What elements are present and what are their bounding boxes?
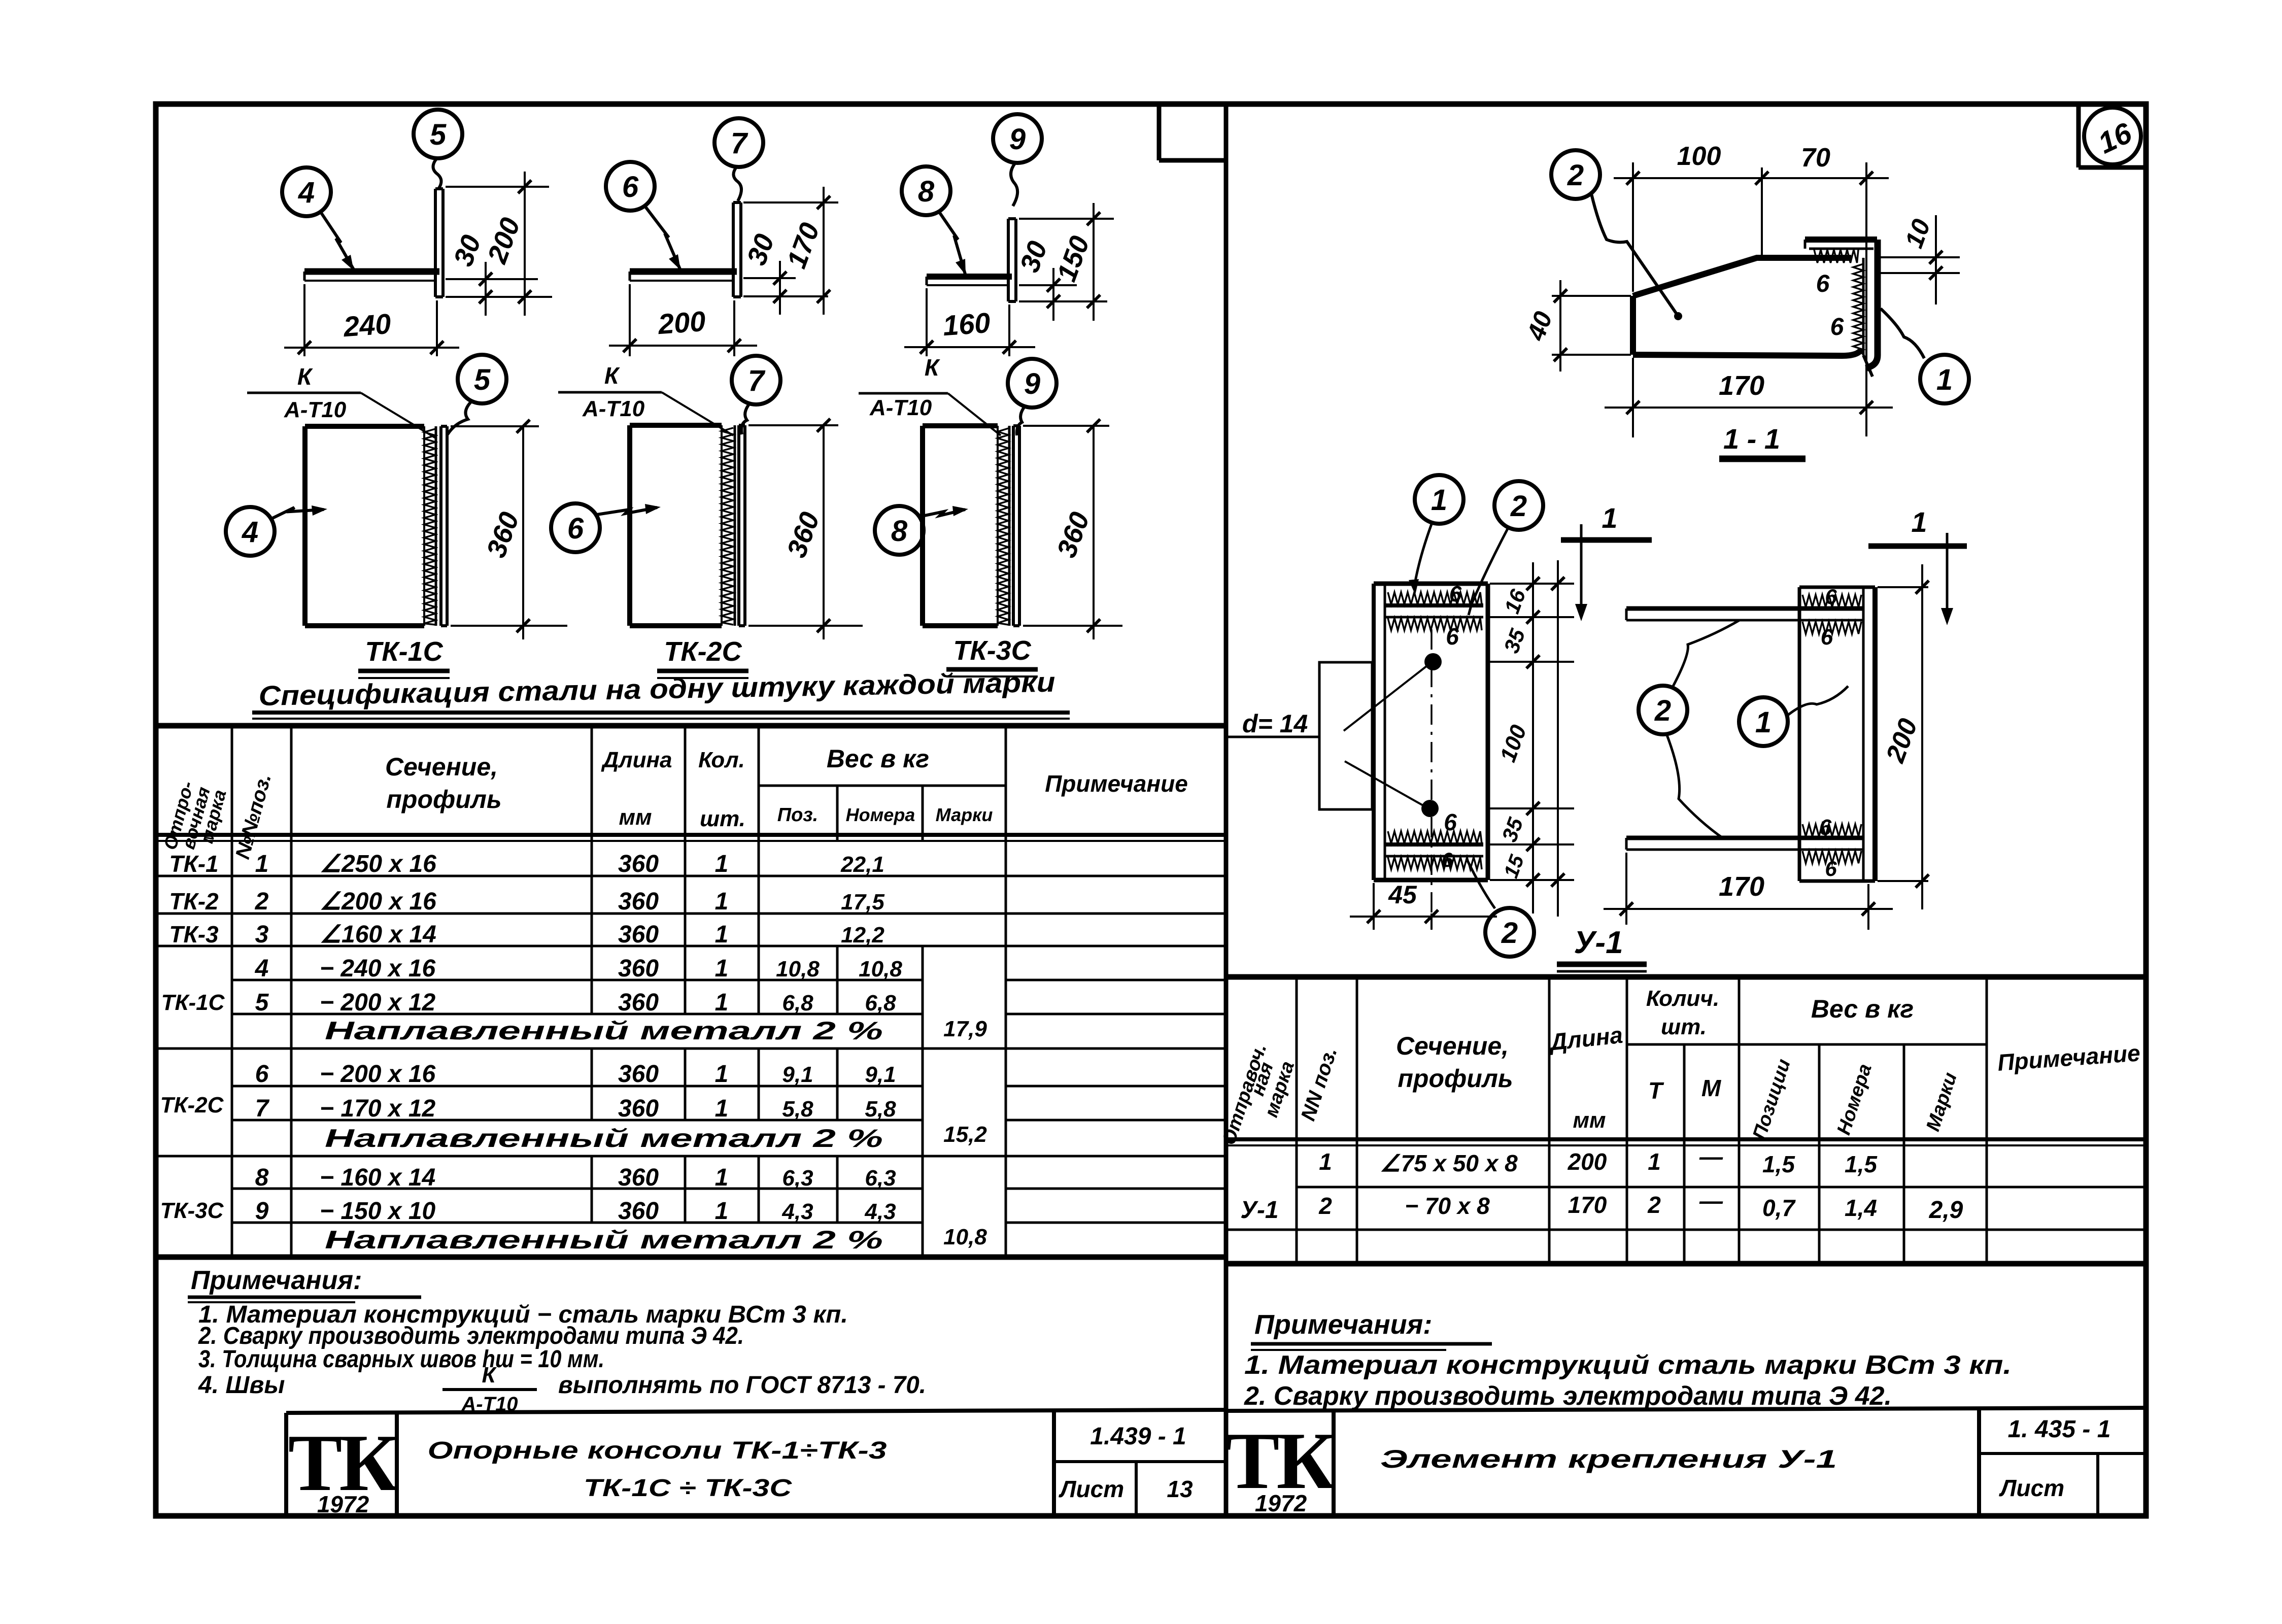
angle pos1 in section: vertical leg	[1863, 240, 1878, 377]
right table header texts	[1218, 986, 2141, 1147]
svg-text:d= 14: d= 14	[1242, 709, 1308, 738]
right table frame	[1226, 977, 2146, 1264]
leader to lower balloon	[1467, 859, 1495, 908]
svg-text:35: 35	[1497, 814, 1527, 845]
left notes heading	[188, 1266, 421, 1302]
svg-text:1: 1	[1319, 1148, 1332, 1175]
wavy leader balloon 7 side view	[741, 403, 750, 434]
label TK-1C	[358, 636, 450, 678]
dimension 150 right of TK-3C top view	[1019, 203, 1114, 321]
leader balloon 1 right view	[1787, 686, 1848, 716]
svg-text:Вес в кг: Вес в кг	[827, 745, 929, 773]
svg-text:40: 40	[1521, 308, 1558, 345]
dimension 170 (section 1-1 bottom)	[1605, 358, 1893, 437]
svg-text:2: 2	[1654, 694, 1671, 727]
svg-text:6: 6	[1449, 582, 1462, 606]
right table vertical grid	[1297, 977, 1987, 1264]
svg-text:1: 1	[715, 989, 729, 1016]
svg-text:К: К	[297, 363, 313, 390]
balloon 8 (side view)	[875, 506, 924, 555]
svg-text:4: 4	[298, 176, 315, 209]
dimension 240 under TK-1C top view	[284, 284, 459, 356]
svg-text:17,5: 17,5	[841, 890, 884, 915]
svg-text:170: 170	[781, 219, 825, 272]
wavy leader balloon 5 to plate pos5	[433, 159, 441, 189]
svg-text:35: 35	[1499, 625, 1529, 656]
leader balloon 8	[939, 212, 966, 275]
wavy leader balloon 5 side view	[448, 401, 472, 434]
leader balloon 8 side view	[919, 506, 968, 517]
left table vertical grid	[232, 726, 1006, 1257]
svg-text:170: 170	[1568, 1192, 1607, 1218]
svg-text:Примечание: Примечание	[1045, 770, 1188, 797]
left title text	[428, 1437, 887, 1502]
svg-text:Опорные консоли ТК-1÷ТК-3: Опорные консоли ТК-1÷ТК-3	[428, 1437, 887, 1464]
U-1 left view: top bar pos2 with welds	[1385, 592, 1483, 630]
svg-text:22,1: 22,1	[840, 852, 884, 877]
svg-text:15: 15	[1500, 852, 1529, 881]
svg-text:шт.: шт.	[1661, 1014, 1707, 1039]
dimension 30 right of TK-3C top view	[1014, 237, 1107, 321]
right title text	[1380, 1445, 1837, 1473]
svg-text:1: 1	[1911, 506, 1927, 538]
leader balloon 2 top	[1469, 528, 1508, 615]
svg-text:1: 1	[715, 888, 729, 915]
weld seam hatch TK-1C	[424, 426, 436, 626]
svg-text:70: 70	[1801, 143, 1830, 173]
left title block frame	[286, 1410, 1226, 1516]
svg-text:100: 100	[1677, 142, 1721, 171]
svg-text:ТК-2С: ТК-2С	[160, 1093, 224, 1118]
svg-text:360: 360	[618, 1164, 659, 1191]
svg-text:ТК-1С: ТК-1С	[365, 636, 443, 667]
balloon 2 (section 1-1)	[1551, 150, 1600, 199]
left note 4 with weld fraction K/A-T10	[198, 1363, 926, 1415]
svg-text:0,7: 0,7	[1762, 1195, 1796, 1221]
figure TK-1C side view: plate pos4 360 long with weld seam and plate pos5	[305, 426, 424, 626]
svg-text:1: 1	[1936, 363, 1953, 396]
plate pos7 edge view TK-2C	[739, 425, 745, 626]
svg-text:360: 360	[618, 851, 659, 877]
svg-text:170: 170	[1719, 871, 1764, 902]
svg-text:2: 2	[1501, 917, 1518, 950]
weld hatch under flange (section 1-1)	[1814, 250, 1858, 263]
svg-text:160: 160	[942, 307, 992, 342]
svg-text:10: 10	[1899, 215, 1936, 252]
svg-text:—: —	[1699, 1143, 1723, 1170]
svg-text:7: 7	[255, 1095, 270, 1122]
left note 3	[198, 1346, 604, 1373]
right note 2	[1244, 1381, 1892, 1411]
figure TK-2C top view: plate pos6 with welded plate pos7	[630, 202, 741, 297]
sheet number box with circled 16	[2079, 106, 2144, 167]
svg-text:170: 170	[1719, 370, 1764, 401]
deposited metal rows	[325, 1017, 883, 1254]
svg-text:6,8: 6,8	[782, 991, 813, 1016]
svg-text:100: 100	[1495, 722, 1531, 765]
weld labels 6 (right view)	[1819, 585, 1837, 881]
svg-text:17,9: 17,9	[943, 1017, 987, 1041]
balloon 8 (top view)	[902, 166, 950, 215]
right table horizontal lines	[1226, 1044, 2146, 1230]
svg-text:профиль: профиль	[1398, 1064, 1513, 1093]
svg-text:240: 240	[342, 308, 392, 343]
svg-text:9: 9	[1009, 123, 1026, 156]
U-1 left view: bottom bar pos2 with welds	[1385, 831, 1483, 869]
svg-text:Примечание: Примечание	[1997, 1039, 2141, 1076]
d=14 callout	[1226, 662, 1427, 809]
svg-text:1. Материал конструкций ста: 1. Материал конструкций сталь марки ВСт …	[1244, 1350, 2012, 1380]
notch box at top of divider	[1159, 106, 1224, 160]
svg-text:ТК-3: ТК-3	[169, 921, 219, 948]
svg-text:10,8: 10,8	[776, 957, 820, 982]
svg-text:Марки: Марки	[1922, 1070, 1961, 1134]
svg-text:360: 360	[781, 508, 825, 561]
svg-text:9: 9	[255, 1198, 269, 1225]
svg-text:ТК-2: ТК-2	[169, 888, 219, 915]
svg-text:6,3: 6,3	[782, 1166, 813, 1191]
svg-text:Кол.: Кол.	[698, 748, 745, 772]
svg-text:4: 4	[242, 516, 258, 549]
svg-text:200: 200	[1881, 715, 1924, 766]
svg-text:150: 150	[1051, 232, 1095, 285]
svg-text:А-Т10: А-Т10	[869, 395, 932, 420]
svg-text:1: 1	[715, 1095, 729, 1122]
svg-text:30: 30	[741, 230, 780, 269]
dimension 200 right of TK-1C top view	[446, 172, 549, 316]
label TK-3C	[946, 635, 1038, 676]
U-1 right view: angle pos1 front	[1799, 587, 1875, 881]
svg-text:360: 360	[618, 1095, 659, 1122]
section 1-1 : plate pos2 profile	[1633, 258, 1861, 356]
balloon 9 (top view)	[993, 114, 1042, 163]
svg-text:8: 8	[891, 515, 908, 548]
leader from balloon 4 to plate pos4	[321, 212, 354, 270]
svg-text:16: 16	[2093, 116, 2137, 160]
svg-text:2: 2	[1647, 1192, 1661, 1218]
svg-text:5: 5	[474, 363, 491, 396]
dimension 170 (U-1 right view bottom)	[1604, 853, 1893, 930]
weld designation K/A-T10 for TK-3C	[859, 354, 1001, 435]
svg-text:1: 1	[1648, 1148, 1661, 1175]
dim chain lines	[1490, 562, 1574, 913]
svg-text:Примечания:: Примечания:	[1254, 1309, 1432, 1340]
dimension 40 (section 1-1 left)	[1521, 280, 1631, 371]
svg-text:∠75 x 50 x 8: ∠75 x 50 x 8	[1380, 1150, 1518, 1176]
svg-text:45: 45	[1388, 881, 1417, 909]
svg-text:5: 5	[255, 989, 269, 1016]
svg-text:− 150 x 10: − 150 x 10	[320, 1198, 436, 1225]
leader balloon 1	[1409, 523, 1432, 595]
svg-text:1: 1	[715, 955, 729, 982]
TK logo left	[288, 1417, 398, 1517]
svg-text:6: 6	[1825, 585, 1837, 608]
svg-text:Элемент крепления У-1: Элемент крепления У-1	[1380, 1445, 1837, 1473]
secondary vertical extension line	[1551, 560, 1564, 917]
svg-text:Наплавленный металл 2 %: Наплавленный металл 2 %	[325, 1124, 883, 1153]
dimensions 100 and 70 (section 1-1)	[1614, 142, 1889, 436]
svg-text:360: 360	[618, 989, 659, 1016]
bolt holes d=14	[1421, 629, 1442, 913]
right title block frame	[1226, 1408, 2146, 1516]
svg-text:2: 2	[1567, 159, 1584, 192]
balloon 2 top (U-1 left view)	[1494, 481, 1543, 530]
svg-text:2: 2	[1318, 1193, 1332, 1219]
svg-text:30: 30	[448, 231, 487, 270]
svg-text:1: 1	[1602, 502, 1617, 534]
svg-text:Примечания:: Примечания:	[191, 1266, 362, 1295]
balloon 5 (top view)	[414, 110, 462, 158]
svg-text:Сечение,: Сечение,	[1396, 1032, 1509, 1060]
balloon 2 (U-1 right view)	[1639, 686, 1687, 734]
svg-text:6,3: 6,3	[865, 1166, 896, 1191]
svg-text:1,5: 1,5	[1845, 1151, 1878, 1177]
svg-text:ТК-3С: ТК-3С	[160, 1198, 224, 1223]
svg-text:ТК-1: ТК-1	[169, 851, 218, 877]
svg-text:8: 8	[918, 175, 935, 208]
svg-text:9: 9	[1024, 367, 1040, 400]
svg-text:6: 6	[255, 1061, 269, 1088]
svg-text:6: 6	[1816, 270, 1830, 297]
merged shipping-mark and total-weight cells	[160, 990, 987, 1249]
svg-text:У-1: У-1	[1574, 925, 1623, 960]
balloon 6 (top view)	[606, 162, 655, 211]
svg-text:ТК-1С ÷ ТК-3С: ТК-1С ÷ ТК-3С	[584, 1475, 793, 1502]
svg-text:1972: 1972	[317, 1491, 369, 1517]
right sheet label	[1999, 1475, 2064, 1501]
balloon 4 (side view)	[226, 507, 275, 556]
svg-text:6: 6	[622, 171, 639, 204]
svg-text:М: М	[1701, 1075, 1722, 1101]
svg-text:6: 6	[1444, 809, 1457, 835]
weld hatch along leg (section 1-1)	[1853, 258, 1863, 355]
svg-text:Наплавленный металл 2 %: Наплавленный металл 2 %	[325, 1226, 883, 1254]
svg-text:6,8: 6,8	[865, 991, 896, 1016]
svg-text:—: —	[1699, 1188, 1723, 1214]
svg-text:360: 360	[618, 955, 659, 982]
svg-text:Длина: Длина	[1547, 1022, 1624, 1056]
svg-text:200: 200	[1568, 1148, 1607, 1175]
label TK-2C	[657, 636, 748, 678]
svg-text:∠200 x 16: ∠200 x 16	[320, 888, 436, 915]
svg-text:1: 1	[255, 851, 269, 877]
svg-text:профиль: профиль	[386, 785, 501, 814]
svg-text:5: 5	[430, 118, 447, 151]
dimension 170 right of TK-2C top view	[743, 187, 838, 315]
center divider line between left and right sheets	[1224, 104, 1229, 1516]
svg-text:1: 1	[1755, 706, 1772, 739]
plate pos9 edge view TK-3C	[1013, 426, 1019, 626]
weld seam hatch TK-2C	[722, 425, 735, 626]
svg-text:8: 8	[255, 1164, 269, 1191]
label 1-1	[1719, 423, 1806, 459]
figure TK-3C top view: plate pos8 with welded plate pos9	[927, 219, 1016, 301]
svg-text:6: 6	[1442, 849, 1453, 871]
dimension 360 for TK-1C side view	[451, 420, 567, 639]
leader balloon 4 side view	[271, 505, 327, 519]
dimension 30 right of TK-1C top view	[446, 231, 552, 316]
right note 1	[1244, 1350, 2012, 1380]
svg-text:К: К	[925, 354, 940, 381]
figure TK-2C side view	[630, 425, 722, 626]
svg-text:30: 30	[1014, 237, 1053, 276]
svg-text:Вес в кг: Вес в кг	[1811, 995, 1914, 1023]
svg-text:ТК-3С: ТК-3С	[953, 635, 1031, 666]
svg-text:2: 2	[255, 888, 269, 915]
svg-text:ТК-2С: ТК-2С	[664, 636, 742, 667]
balloon 1 (U-1 left view top)	[1415, 475, 1463, 524]
dimension 30 right of TK-2C top view	[741, 230, 828, 315]
figure TK-1C top view: plate pos4 with welded plate pos5	[304, 189, 443, 297]
svg-text:1: 1	[715, 1061, 729, 1088]
svg-text:4. Швы: 4. Швы	[198, 1372, 285, 1399]
svg-text:К: К	[604, 362, 620, 389]
leader balloon 1 (section 1-1)	[1881, 309, 1924, 358]
svg-text:Сечение,: Сечение,	[385, 753, 498, 781]
leader balloon 6 side view	[597, 504, 661, 515]
svg-text:А-Т10: А-Т10	[284, 397, 347, 422]
svg-text:∠250 x 16: ∠250 x 16	[320, 851, 436, 877]
svg-text:− 160 x 14: − 160 x 14	[320, 1164, 435, 1191]
dimension 200 (U-1 right view)	[1878, 564, 1929, 909]
svg-text:6: 6	[1446, 623, 1459, 650]
right table data	[1240, 1143, 1963, 1224]
svg-text:10,8: 10,8	[859, 957, 902, 982]
svg-text:4: 4	[255, 955, 269, 982]
dimension 360 for TK-2C side view	[748, 419, 863, 639]
left table horizontal row lines	[156, 786, 1226, 1223]
svg-text:6: 6	[567, 512, 584, 545]
svg-text:5,8: 5,8	[865, 1097, 896, 1122]
svg-text:Т: Т	[1648, 1077, 1664, 1104]
svg-text:10,8: 10,8	[943, 1225, 987, 1249]
svg-text:ТК-1С: ТК-1С	[161, 990, 225, 1015]
balloon 9 (side view)	[1008, 359, 1057, 408]
svg-text:6: 6	[1825, 857, 1837, 881]
U-1 right view: bottom bar pos2	[1626, 838, 1863, 850]
U-1 right view: top bar pos2	[1626, 608, 1863, 620]
svg-text:1: 1	[715, 921, 729, 948]
svg-text:− 200 x 16: − 200 x 16	[320, 1061, 436, 1088]
left specification table frame	[156, 726, 1226, 1257]
left sheet label	[1059, 1476, 1193, 1502]
svg-text:13: 13	[1167, 1476, 1193, 1502]
title: specification of steel	[252, 666, 1070, 719]
svg-text:− 200 x 12: − 200 x 12	[320, 989, 436, 1016]
svg-text:200: 200	[657, 305, 707, 340]
svg-text:6: 6	[1819, 815, 1832, 840]
svg-text:3. Толщина сварных швов hш: 3. Толщина сварных швов hш = 10 мм.	[198, 1346, 604, 1373]
svg-text:360: 360	[618, 888, 659, 915]
svg-text:5,8: 5,8	[782, 1097, 813, 1122]
svg-text:7: 7	[748, 364, 766, 397]
svg-text:12,2: 12,2	[841, 923, 884, 948]
svg-text:Номера: Номера	[846, 804, 915, 825]
svg-text:Длина: Длина	[600, 748, 672, 772]
svg-text:К: К	[482, 1363, 497, 1388]
svg-text:мм: мм	[619, 805, 652, 830]
left note 2	[198, 1323, 744, 1349]
sheet outer border	[156, 104, 2146, 1516]
right notes heading	[1251, 1309, 1492, 1350]
wavy leader balloon 7	[733, 166, 741, 201]
angle pos1 in section: top flange	[1805, 240, 1877, 249]
dimension 10 (section 1-1 right)	[1880, 215, 1960, 304]
svg-text:1: 1	[715, 1198, 729, 1225]
dimension 200 under TK-2C top view	[609, 284, 757, 356]
svg-text:16: 16	[1500, 586, 1530, 617]
svg-text:6: 6	[1821, 625, 1833, 650]
left table header texts	[159, 745, 1188, 861]
svg-text:NN поз.: NN поз.	[1297, 1044, 1342, 1124]
svg-text:2,9: 2,9	[1929, 1197, 1963, 1224]
svg-text:Наплавленный металл 2 %: Наплавленный металл 2 %	[325, 1017, 883, 1045]
dimension 360 for TK-3C side view	[1023, 419, 1122, 639]
leaders balloon 2 right view	[1666, 620, 1740, 838]
balloon 7 (side view)	[732, 356, 780, 404]
label U-1	[1557, 925, 1647, 971]
svg-text:− 70 x 8: − 70 x 8	[1405, 1193, 1490, 1219]
svg-text:2. Сварку производить электр: 2. Сварку производить электродами типа Э…	[1244, 1381, 1892, 1411]
left doc number 1.439-1	[1090, 1423, 1186, 1450]
svg-text:3: 3	[255, 921, 269, 948]
svg-text:А-Т10: А-Т10	[582, 396, 645, 421]
balloon 4 (top view)	[282, 167, 331, 216]
svg-text:Позиции: Позиции	[1749, 1057, 1795, 1142]
welds at bar ends (right view)	[1802, 595, 1861, 863]
balloon 6 (side view)	[551, 503, 600, 552]
svg-text:Лист: Лист	[1059, 1476, 1124, 1502]
weld designation K/A-T10 for TK-1C	[247, 363, 436, 438]
section mark 1 (right position)	[1868, 506, 1967, 625]
svg-text:Номера: Номера	[1833, 1061, 1876, 1137]
svg-text:1 - 1: 1 - 1	[1723, 423, 1780, 455]
svg-text:У-1: У-1	[1240, 1197, 1278, 1224]
dimension 45 (U-1 left view bottom)	[1350, 881, 1497, 930]
svg-text:2: 2	[1510, 490, 1527, 523]
balloon 5 (side view)	[458, 355, 506, 403]
svg-text:360: 360	[618, 921, 659, 948]
section mark 1 (left position)	[1561, 502, 1652, 621]
leader balloon 6	[644, 206, 680, 270]
svg-text:1: 1	[1431, 484, 1447, 517]
figure TK-3C side view	[923, 426, 998, 626]
U-1 left view: angle pos1 body	[1374, 584, 1488, 880]
svg-text:− 170 x 12: − 170 x 12	[320, 1095, 436, 1122]
svg-text:1: 1	[715, 851, 729, 877]
svg-text:шт.: шт.	[700, 806, 745, 831]
svg-text:№№поз.: №№поз.	[231, 771, 276, 862]
right doc number	[2008, 1416, 2111, 1443]
balloon 1 (section 1-1)	[1920, 355, 1969, 403]
balloon 2 lower (U-1 left view)	[1485, 908, 1534, 957]
svg-text:4,3: 4,3	[864, 1199, 896, 1224]
svg-text:Колич.: Колич.	[1646, 986, 1719, 1011]
weld size labels 6 (U-1 left view)	[1442, 582, 1462, 871]
svg-text:4,3: 4,3	[781, 1199, 813, 1224]
svg-text:1,4: 1,4	[1845, 1195, 1877, 1221]
wavy leader balloon 9	[1011, 163, 1017, 206]
svg-text:360: 360	[1051, 508, 1095, 561]
weld designation K/A-T10 for TK-2C	[558, 362, 733, 435]
svg-text:9,1: 9,1	[865, 1062, 896, 1087]
svg-text:∠160 x 14: ∠160 x 14	[320, 921, 436, 948]
weld seam hatch TK-3C	[998, 426, 1009, 626]
dimension 160 under TK-3C top view	[904, 288, 1035, 356]
svg-text:Поз.: Поз.	[777, 804, 819, 826]
weld size labels 6 (section 1-1)	[1816, 270, 1844, 341]
svg-text:1.439 - 1: 1.439 - 1	[1090, 1423, 1186, 1450]
